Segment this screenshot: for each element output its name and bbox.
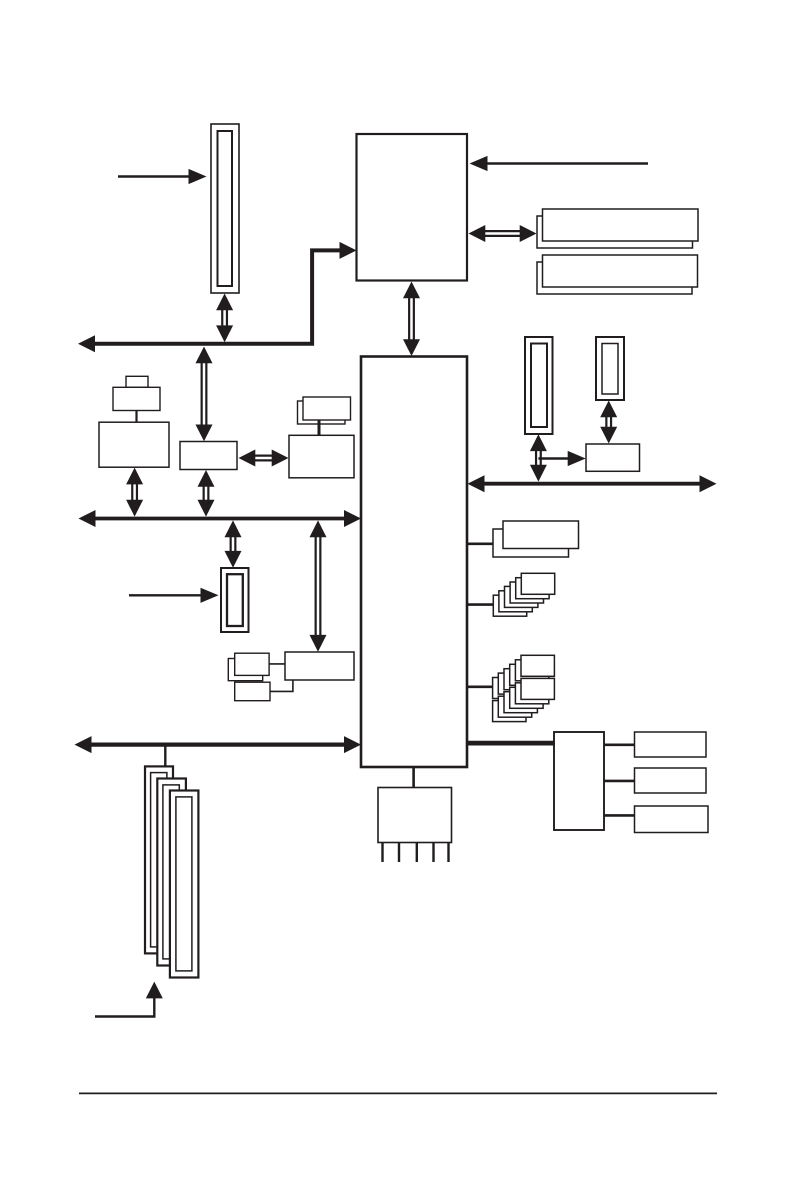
- wire: double arrow codec box to bus 2: [126, 468, 143, 517]
- wire: thick bus 2 (left, LPC): [79, 510, 362, 527]
- pin 2: [398, 843, 400, 863]
- PCIe x16 slot A (double rectangle): [525, 337, 553, 434]
- right box 1: [635, 732, 707, 757]
- memory slot 1 (stacked pair, top): [537, 209, 698, 248]
- wire: chipset bottom to front panel pin header: [412, 767, 415, 788]
- front panel pin header box: [378, 788, 452, 843]
- right box 3: [635, 806, 709, 833]
- wire: arrow into CPU socket from left: [118, 169, 207, 184]
- SATA stacked pair: [493, 521, 579, 557]
- super I/O box: [180, 442, 237, 470]
- CPU box (top center): [357, 134, 468, 281]
- wire: double arrow bus2 to small slot: [225, 520, 242, 567]
- wire: long double arrow from bus1 down to super I/O box: [196, 347, 213, 442]
- codec big box (left): [99, 422, 169, 467]
- wire: long double arrow bus2 down to audio box: [310, 520, 327, 651]
- front audio small box: [235, 682, 270, 701]
- small expansion slot (double rectangle): [221, 568, 249, 632]
- audio codec box: [285, 652, 354, 680]
- wire: chipset to SATA stack: [466, 542, 494, 545]
- right box 2: [635, 768, 707, 793]
- memory slot 2 (stacked pair, bottom): [537, 255, 698, 294]
- pin 5: [447, 843, 449, 863]
- wire: double arrow slot A to right bus: [530, 434, 547, 481]
- wire: thick bus 1 with elbow up to CPU box: [78, 242, 357, 352]
- wire: chipset to USB fan 1: [466, 603, 494, 606]
- wire: double arrow slot B to LAN box: [600, 401, 617, 444]
- wire: double arrow between CPU box and memory slots: [469, 225, 537, 242]
- rear I/O hub tall box: [554, 732, 604, 830]
- wire: double arrow super I/O to BIOS box: [239, 450, 289, 467]
- wire: thick bus right (PCIe x16): [468, 475, 717, 492]
- PCIe x1 slot B (double rectangle): [596, 337, 624, 400]
- wire: stacked pair to BIOS box: [318, 420, 321, 435]
- USB fan 1 (6 stacked boxes): [493, 573, 554, 616]
- wire: hub to right box 1: [604, 743, 635, 746]
- chipset box (tall center): [361, 357, 467, 768]
- PCI slot 1 (back): [145, 766, 173, 953]
- PCI slot 2 (middle): [157, 779, 186, 966]
- USB fan 2 lower stack (6 boxes): [493, 678, 555, 721]
- wire: arrow into CPU box right edge from far right: [470, 156, 649, 171]
- clock generator small top box: [126, 376, 148, 387]
- wire: double arrow between CPU box and chipset: [403, 282, 420, 357]
- wire: arrow from slot A stem to LAN box: [538, 451, 585, 466]
- pin 1: [381, 843, 383, 863]
- wire: arrow into small slot from left: [129, 588, 219, 603]
- wire: double arrow between CPU socket and front side bus: [216, 294, 233, 343]
- audio ports stacked pair (left of audio box): [228, 653, 269, 681]
- pin 4: [432, 843, 434, 863]
- CPU socket slot (top-left tall double rectangle): [211, 124, 239, 293]
- wire: stacked pair to audio box: [269, 663, 286, 665]
- wire: elbow from small box to audio box: [270, 681, 293, 692]
- wire: elbow arrow up into PCI slots from bottom left: [95, 982, 163, 1017]
- pin 3: [416, 843, 418, 863]
- PCI slot 3 (front): [170, 791, 199, 978]
- wire: chipset to USB fan 2: [466, 685, 494, 688]
- USB fan 2 upper stack (6 boxes): [493, 655, 555, 698]
- wire: bus3 to PCI slots: [164, 746, 166, 767]
- footer rule: [79, 1092, 717, 1094]
- wire: thick line chipset to rear I/O hub box: [466, 741, 555, 746]
- LAN box: [586, 444, 640, 471]
- wire: hub to right box 2: [604, 780, 635, 783]
- wire: double arrow super I/O to bus 2: [198, 470, 215, 517]
- wire: clock generator to codec box: [135, 411, 137, 423]
- dual BIOS stacked pair above BIOS box: [298, 397, 351, 424]
- BIOS box: [289, 435, 354, 478]
- wire: hub to right box 3: [604, 814, 635, 817]
- wire: thick bus 3 (PCI): [75, 736, 362, 753]
- clock generator middle box: [113, 387, 160, 410]
